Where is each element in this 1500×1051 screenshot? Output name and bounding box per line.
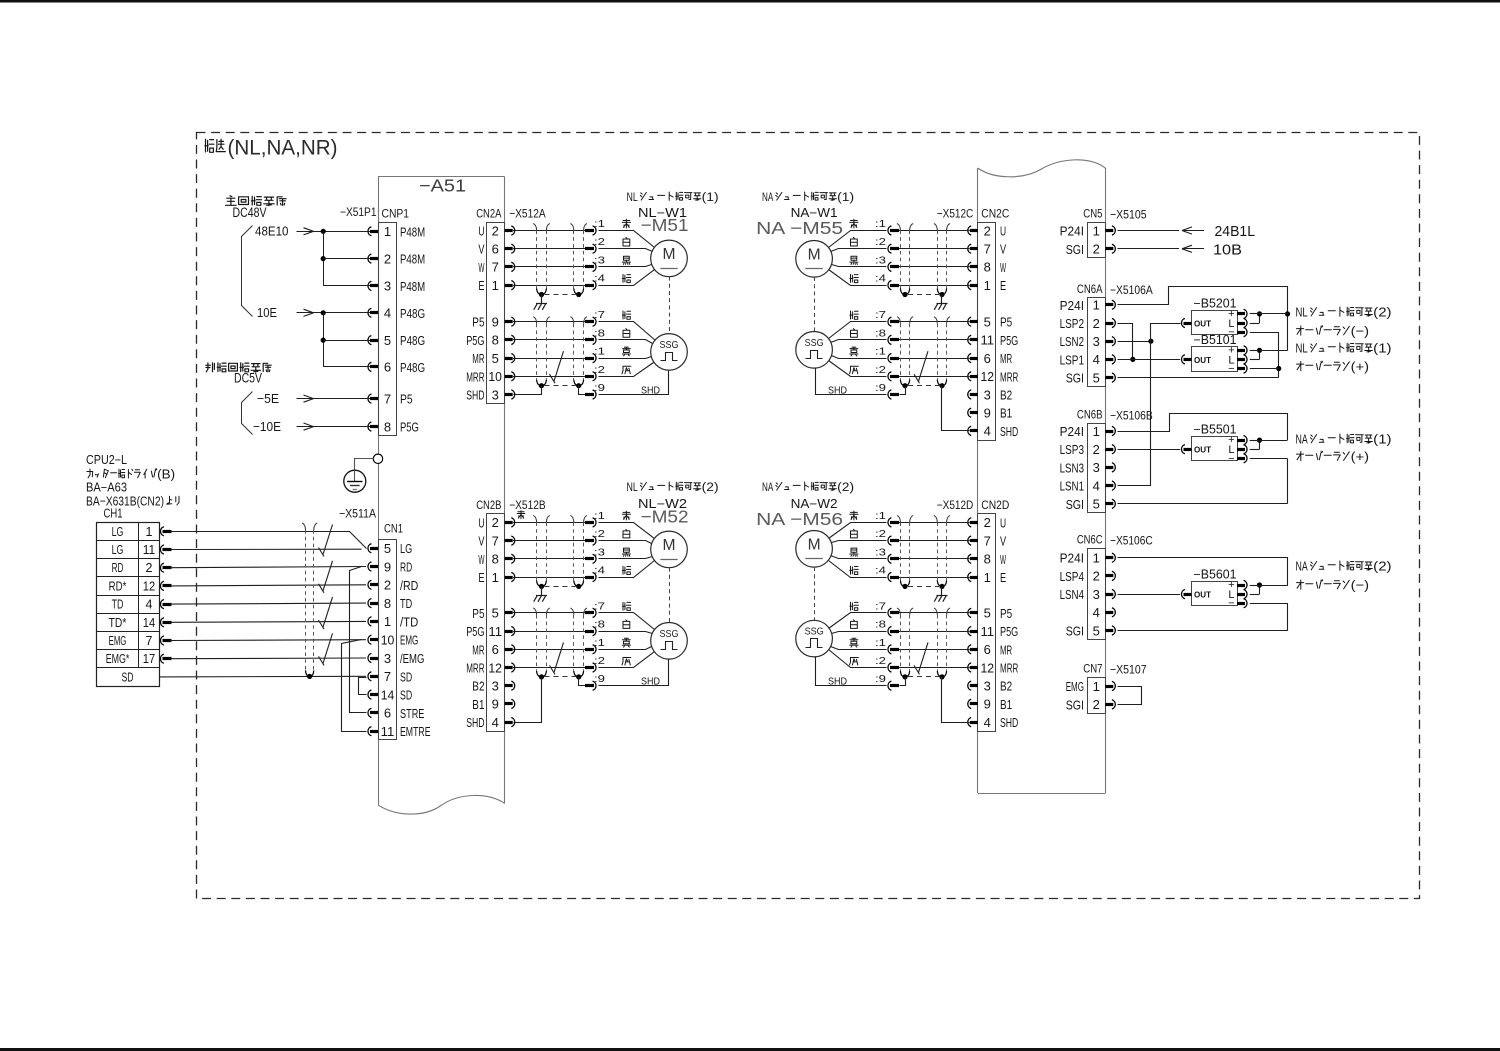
shielded cable pair 2 (encoder leads) bbox=[897, 317, 900, 324]
svg-text:11: 11 bbox=[981, 624, 995, 639]
svg-text:V: V bbox=[478, 242, 484, 257]
svg-text:1: 1 bbox=[1093, 679, 1100, 694]
shield junction dots + drain bbox=[539, 584, 544, 589]
svg-text:W: W bbox=[478, 552, 484, 567]
svg-text:3: 3 bbox=[1093, 587, 1100, 602]
wire color label 黄 bbox=[622, 347, 630, 356]
wire SHD shield drain bbox=[942, 386, 970, 431]
wire phase W (黒) bbox=[513, 266, 585, 268]
svg-text:11: 11 bbox=[381, 724, 395, 739]
svg-text::9: :9 bbox=[594, 673, 605, 685]
wire SHD shield drain bbox=[514, 677, 542, 723]
wire color label 緑 bbox=[622, 274, 631, 282]
svg-text:1: 1 bbox=[1093, 424, 1100, 439]
svg-text:CN2B: CN2B bbox=[476, 498, 501, 512]
svg-text:P24I: P24I bbox=[1060, 551, 1084, 566]
svg-text:SD: SD bbox=[122, 670, 134, 684]
connector CN7 box bbox=[1088, 678, 1106, 714]
wire to CNP1-3 bbox=[323, 285, 370, 287]
svg-text:MRR: MRR bbox=[1000, 661, 1018, 676]
svg-text:6: 6 bbox=[492, 642, 499, 657]
wire EMG-SGI loop bbox=[1118, 687, 1142, 705]
svg-text:P48G: P48G bbox=[400, 306, 425, 321]
wire color label 緑 bbox=[622, 566, 631, 574]
wire color label 白 bbox=[623, 529, 630, 538]
svg-text::1: :1 bbox=[875, 346, 886, 358]
wire SGI row bbox=[1118, 377, 1279, 379]
svg-text:P5G: P5G bbox=[400, 420, 419, 435]
svg-text:9: 9 bbox=[984, 697, 991, 712]
bracket DC48V bbox=[242, 226, 253, 317]
protective earth symbol PE bbox=[344, 470, 366, 492]
svg-text:P5G: P5G bbox=[466, 624, 484, 639]
motor NA −M55 circle bbox=[796, 240, 833, 277]
wire color label 白 bbox=[851, 620, 858, 629]
svg-text:P48M: P48M bbox=[400, 224, 425, 239]
svg-text:NA −M56: NA −M56 bbox=[756, 509, 843, 529]
svg-text:NL: NL bbox=[627, 480, 638, 494]
wire SGI row bbox=[1118, 630, 1288, 632]
label オーバーラン(-) bbox=[1297, 580, 1304, 589]
svg-text:LSN2: LSN2 bbox=[1060, 334, 1084, 349]
svg-text:SSG: SSG bbox=[805, 338, 824, 349]
svg-text:−X512A: −X512A bbox=[509, 207, 546, 221]
svg-text:48E10: 48E10 bbox=[255, 224, 289, 239]
dashed enclosure frame 搬送(NL,NA,NR) bbox=[197, 133, 1420, 899]
wire RD* to CN1-2 bbox=[170, 585, 366, 586]
wire phase U (赤) bbox=[513, 522, 585, 524]
svg-text:SGI: SGI bbox=[1066, 624, 1084, 639]
wire LSN2 junction bbox=[1118, 341, 1151, 343]
shielded cable pair 2 (encoder leads) bbox=[897, 608, 900, 615]
right servo amp unit box (break at top) bbox=[978, 160, 1106, 177]
wire EMG* to CN1-3 bbox=[170, 657, 366, 660]
svg-text:(2): (2) bbox=[837, 480, 854, 494]
wire EMG to CN1-10 bbox=[170, 639, 366, 642]
svg-text:M: M bbox=[808, 536, 821, 553]
svg-text:/RD: /RD bbox=[400, 578, 418, 593]
svg-text:SHD: SHD bbox=[1000, 715, 1018, 730]
svg-text::3: :3 bbox=[594, 546, 605, 558]
svg-text:9: 9 bbox=[492, 315, 499, 330]
motor −M52 circle bbox=[651, 531, 688, 568]
svg-text::2: :2 bbox=[875, 528, 886, 540]
bracket DC5V bbox=[242, 392, 253, 435]
svg-text:LG: LG bbox=[112, 525, 124, 539]
wire encoder P5G (白) bbox=[513, 339, 585, 341]
svg-text::1: :1 bbox=[594, 218, 605, 230]
svg-text:TD*: TD* bbox=[109, 616, 127, 630]
svg-text:RD: RD bbox=[400, 560, 412, 575]
svg-text::8: :8 bbox=[875, 619, 886, 631]
svg-text:(−): (−) bbox=[1351, 578, 1369, 593]
svg-text:−: − bbox=[1228, 363, 1234, 375]
svg-text:MRR: MRR bbox=[466, 661, 484, 676]
svg-text::8: :8 bbox=[875, 327, 886, 339]
connector CN1 -X511A box bbox=[379, 540, 397, 740]
svg-text::1: :1 bbox=[594, 510, 605, 522]
break mark EMG pair bbox=[323, 633, 333, 663]
wire color label 灰 bbox=[850, 366, 859, 374]
wire SD to CN1-7 bbox=[159, 675, 366, 678]
wire color label 橙 bbox=[622, 311, 631, 319]
shield junction dots + drain bbox=[939, 292, 944, 297]
svg-text:SD: SD bbox=[400, 669, 412, 684]
wire -10E to CNP1-8 bbox=[314, 426, 371, 428]
dashed link motor-encoder bbox=[669, 568, 671, 623]
svg-text:MRR: MRR bbox=[1000, 369, 1018, 384]
svg-text:−X511A: −X511A bbox=[339, 507, 376, 521]
svg-text:DC48V: DC48V bbox=[233, 205, 267, 220]
svg-text:W: W bbox=[1000, 552, 1006, 567]
wire junction to CNP1-2 bbox=[323, 231, 325, 286]
wire encoder P5 (橙) bbox=[513, 321, 585, 323]
wire color label 灰 bbox=[622, 366, 631, 374]
wire encoder MR (黄) bbox=[513, 649, 585, 651]
connector CN6A box bbox=[1088, 298, 1106, 387]
wire encoder P5G (白) bbox=[899, 631, 970, 633]
svg-text:7: 7 bbox=[492, 533, 499, 548]
wire color label 赤 bbox=[850, 219, 858, 228]
wire SHD to SSG bbox=[599, 660, 669, 686]
svg-text:8: 8 bbox=[492, 333, 499, 348]
wire color label 黒 bbox=[850, 256, 858, 264]
svg-text:SSG: SSG bbox=[660, 629, 679, 640]
svg-text:−X5107: −X5107 bbox=[1110, 663, 1147, 677]
dashed link motor-encoder bbox=[814, 567, 816, 620]
power label 制御回路電源 bbox=[206, 363, 215, 372]
svg-text::9: :9 bbox=[875, 673, 886, 685]
svg-text:6: 6 bbox=[984, 642, 991, 657]
shielded cable pair 2 (motor leads) bbox=[897, 224, 900, 231]
−B5601 L tie wire bbox=[1250, 585, 1260, 587]
svg-text:RD*: RD* bbox=[109, 579, 127, 593]
svg-text:−A51: −A51 bbox=[419, 176, 466, 196]
svg-text:5: 5 bbox=[384, 541, 391, 556]
wire SHD shield drain bbox=[942, 677, 970, 723]
svg-text:W: W bbox=[1000, 260, 1006, 275]
svg-text:STRE: STRE bbox=[400, 706, 425, 721]
shield pair on CPU cable bbox=[302, 523, 305, 530]
svg-text:(NL,NA,NR): (NL,NA,NR) bbox=[228, 137, 338, 160]
wire phase E (緑) bbox=[513, 285, 585, 287]
svg-text:8: 8 bbox=[984, 260, 991, 275]
shielded cable pair (encoder leads) bbox=[533, 608, 536, 615]
svg-text:8: 8 bbox=[984, 552, 991, 567]
svg-text:12: 12 bbox=[143, 579, 155, 593]
svg-text:14: 14 bbox=[143, 616, 155, 630]
svg-text:SD: SD bbox=[400, 688, 412, 703]
svg-text:12: 12 bbox=[488, 660, 502, 675]
svg-text:(−): (−) bbox=[1351, 324, 1369, 339]
svg-text::2: :2 bbox=[875, 236, 886, 248]
svg-text:EMG*: EMG* bbox=[106, 652, 130, 666]
svg-text:LG: LG bbox=[112, 543, 124, 557]
svg-text:MRR: MRR bbox=[466, 369, 484, 384]
svg-text:3: 3 bbox=[984, 679, 991, 694]
wire encoder MRR (灰) bbox=[513, 667, 585, 669]
svg-text:3: 3 bbox=[384, 279, 391, 294]
wire SHD to SSG bbox=[599, 371, 669, 395]
svg-text:9: 9 bbox=[984, 406, 991, 421]
svg-text:CN6C: CN6C bbox=[1077, 532, 1103, 546]
wire P24I loop to B5601 + bbox=[1118, 558, 1288, 586]
wire color label 赤 bbox=[850, 511, 858, 520]
svg-text:−M52: −M52 bbox=[641, 506, 689, 526]
wire color label 緑 bbox=[850, 566, 859, 574]
label カッター軸ドライバ(B) bbox=[87, 469, 93, 478]
CN2B connector box bbox=[487, 514, 505, 732]
svg-text:NA: NA bbox=[762, 190, 774, 204]
svg-text:U: U bbox=[1000, 224, 1006, 239]
wire B5201 OUT down to CN6B LSN1 bbox=[1118, 324, 1181, 486]
svg-text:P24I: P24I bbox=[1060, 224, 1084, 239]
svg-text:U: U bbox=[478, 224, 484, 239]
svg-text:NL: NL bbox=[627, 190, 638, 204]
sensor −B5501 box bbox=[1192, 437, 1238, 461]
svg-text:2: 2 bbox=[1093, 569, 1100, 584]
shielded cable pair (motor leads) bbox=[533, 515, 536, 522]
wire color label 橙 bbox=[850, 311, 859, 319]
svg-text:P5: P5 bbox=[472, 606, 484, 621]
svg-text:LSN4: LSN4 bbox=[1060, 587, 1084, 602]
svg-text:2: 2 bbox=[492, 515, 499, 530]
svg-text::4: :4 bbox=[594, 565, 605, 577]
svg-text:CN1: CN1 bbox=[384, 522, 403, 536]
svg-text:−X5106C: −X5106C bbox=[1110, 533, 1153, 547]
svg-text:(1): (1) bbox=[702, 190, 719, 204]
chassis ground bbox=[941, 295, 943, 304]
svg-text:MR: MR bbox=[472, 642, 484, 657]
wire phase V (白) bbox=[899, 540, 970, 542]
−B5501 L tie wire bbox=[1250, 440, 1260, 442]
svg-text:1: 1 bbox=[146, 525, 153, 539]
svg-text::3: :3 bbox=[875, 546, 886, 558]
connector CN6B box bbox=[1088, 424, 1106, 513]
wire color label 黄 bbox=[622, 638, 630, 647]
shielded cable pair (motor leads) bbox=[533, 224, 536, 231]
svg-text:5: 5 bbox=[492, 606, 499, 621]
wire LSP2 to LSP1 junction bbox=[1118, 324, 1133, 360]
svg-text:P24I: P24I bbox=[1060, 298, 1084, 313]
svg-text:RD: RD bbox=[112, 561, 124, 575]
svg-text::7: :7 bbox=[875, 309, 886, 321]
svg-text::1: :1 bbox=[875, 510, 886, 522]
svg-text:OUT: OUT bbox=[1194, 445, 1212, 455]
svg-text:4: 4 bbox=[984, 424, 991, 439]
svg-text:5: 5 bbox=[492, 351, 499, 366]
svg-text:−M51: −M51 bbox=[641, 215, 689, 235]
connector CN5 box bbox=[1088, 223, 1106, 258]
svg-text:4: 4 bbox=[146, 598, 153, 612]
svg-text:OUT: OUT bbox=[1194, 355, 1212, 365]
svg-text:1: 1 bbox=[384, 614, 391, 629]
svg-text:OUT: OUT bbox=[1194, 319, 1212, 329]
svg-text:E: E bbox=[478, 278, 484, 293]
shielded cable pair 2 (motor leads) bbox=[570, 224, 573, 231]
svg-text:LSP2: LSP2 bbox=[1060, 316, 1084, 331]
CN2D connector box bbox=[978, 514, 996, 732]
svg-text:BA−A63: BA−A63 bbox=[86, 481, 127, 495]
wire encoder P5 (橙) bbox=[899, 612, 970, 614]
svg-text:P48G: P48G bbox=[400, 360, 425, 375]
svg-text:CN2A: CN2A bbox=[476, 207, 501, 221]
svg-text:LSP3: LSP3 bbox=[1060, 442, 1084, 457]
svg-text:8: 8 bbox=[492, 552, 499, 567]
svg-text:1: 1 bbox=[1093, 223, 1100, 238]
svg-text:LSN1: LSN1 bbox=[1060, 479, 1084, 494]
svg-text:8: 8 bbox=[384, 596, 391, 611]
CN2A connector box bbox=[487, 223, 505, 404]
label オーバーラン(-) bbox=[1297, 326, 1304, 335]
CPU signal table bbox=[97, 523, 160, 687]
svg-text:SHD: SHD bbox=[466, 715, 484, 730]
encoder shield dots bbox=[539, 383, 544, 388]
svg-text:4: 4 bbox=[492, 715, 499, 730]
svg-text::2: :2 bbox=[594, 364, 605, 376]
wire color label 黄 bbox=[850, 638, 858, 647]
wire SHD to SSG bbox=[816, 657, 887, 686]
wire phase E (緑) bbox=[899, 285, 970, 287]
svg-text:NL: NL bbox=[1296, 305, 1308, 320]
svg-text:EMG: EMG bbox=[109, 634, 127, 648]
svg-text:2: 2 bbox=[1093, 442, 1100, 457]
encoder SSG circle bbox=[651, 623, 688, 660]
svg-text:(1): (1) bbox=[837, 190, 854, 204]
svg-text:9: 9 bbox=[384, 559, 391, 574]
svg-text:2: 2 bbox=[492, 223, 499, 238]
svg-text:6: 6 bbox=[492, 242, 499, 257]
svg-text:CH1: CH1 bbox=[104, 507, 123, 521]
wire color label 白 bbox=[851, 237, 858, 246]
svg-text:P5: P5 bbox=[1000, 606, 1012, 621]
wire B5201 + row bbox=[1250, 313, 1288, 315]
svg-text:−X512D: −X512D bbox=[937, 498, 974, 512]
svg-text:SGI: SGI bbox=[1066, 371, 1084, 386]
shielded cable pair 2 (motor leads) bbox=[570, 515, 573, 522]
wire B5601 + row bbox=[1250, 585, 1288, 587]
svg-text:2: 2 bbox=[1093, 697, 1100, 712]
svg-text:−X5106B: −X5106B bbox=[1110, 409, 1153, 423]
break mark encoder cable bbox=[919, 351, 929, 381]
svg-text:24B1L: 24B1L bbox=[1215, 223, 1256, 240]
encoder SSG circle bbox=[796, 332, 833, 369]
shielded cable pair 2 (motor leads) bbox=[897, 515, 900, 522]
svg-text:OUT: OUT bbox=[1194, 590, 1212, 600]
svg-text:12: 12 bbox=[981, 660, 995, 675]
shield drain dot bbox=[307, 674, 312, 679]
svg-text:5: 5 bbox=[1093, 370, 1100, 385]
wire B5201 - to B5101 - to SGI bbox=[1250, 332, 1279, 334]
−B5101 L tie wire bbox=[1250, 350, 1260, 352]
wire B5601 - to SGI bbox=[1250, 603, 1288, 605]
svg-text:B2: B2 bbox=[472, 679, 484, 694]
wire P24I loop to sensors + bbox=[1118, 287, 1288, 351]
wire LSN4 to B5601 OUT bbox=[1118, 594, 1181, 596]
svg-text:NL: NL bbox=[1296, 341, 1308, 356]
wire B5501 - to SGI bbox=[1250, 458, 1287, 460]
svg-text:1: 1 bbox=[1093, 551, 1100, 566]
wire phase U (赤) bbox=[513, 230, 585, 232]
wire phase W (黒) bbox=[899, 558, 970, 560]
encoder shield dots bbox=[939, 383, 944, 388]
svg-text:SGI: SGI bbox=[1066, 697, 1084, 712]
svg-text:1: 1 bbox=[492, 570, 499, 585]
wire to protective earth bbox=[355, 459, 374, 471]
svg-text::2: :2 bbox=[594, 236, 605, 248]
bottom border bar bbox=[0, 1048, 1500, 1051]
svg-text:BA−X631B(CN2): BA−X631B(CN2) bbox=[86, 494, 164, 509]
wire encoder MR (黄) bbox=[899, 649, 970, 651]
svg-text:3: 3 bbox=[1093, 334, 1100, 349]
svg-text::9: :9 bbox=[875, 382, 886, 394]
svg-text::1: :1 bbox=[594, 637, 605, 649]
svg-text::7: :7 bbox=[594, 600, 605, 612]
svg-text:U: U bbox=[1000, 515, 1006, 530]
svg-text::4: :4 bbox=[875, 273, 886, 285]
svg-text:−10E: −10E bbox=[253, 419, 281, 434]
svg-text:CNP1: CNP1 bbox=[382, 206, 410, 220]
svg-text:3: 3 bbox=[384, 651, 391, 666]
svg-text:TD: TD bbox=[112, 598, 124, 612]
svg-text:SGI: SGI bbox=[1066, 242, 1084, 257]
wire encoder MR (黄) bbox=[899, 358, 970, 360]
wire LSP3 to B5501 OUT bbox=[1118, 449, 1181, 451]
svg-text:4: 4 bbox=[384, 306, 391, 321]
wire B5101 + row bbox=[1250, 350, 1288, 352]
encoder shield dots bbox=[939, 674, 944, 679]
dashed link motor-encoder bbox=[814, 277, 816, 332]
wire phase E (緑) bbox=[513, 577, 585, 579]
svg-text:MR: MR bbox=[472, 351, 484, 366]
connector CNP1 -X51P1 box bbox=[379, 223, 397, 436]
svg-text:P48G: P48G bbox=[400, 333, 425, 348]
shielded cable pair 2 (encoder leads) bbox=[570, 608, 573, 615]
shielded cable pair (motor leads) bbox=[934, 515, 937, 522]
wire color label 白 bbox=[623, 237, 630, 246]
svg-text:2: 2 bbox=[1093, 316, 1100, 331]
wire phase E (緑) bbox=[899, 577, 970, 579]
wire color label 黒 bbox=[850, 548, 858, 556]
svg-text:5: 5 bbox=[984, 606, 991, 621]
shield junction dots + drain bbox=[939, 584, 944, 589]
shield junction dots + drain bbox=[539, 292, 544, 297]
wire encoder P5G (白) bbox=[513, 631, 585, 633]
svg-text:B2: B2 bbox=[1000, 679, 1012, 694]
svg-text:4: 4 bbox=[1093, 478, 1100, 493]
svg-text:CN6A: CN6A bbox=[1077, 282, 1103, 296]
svg-text:1: 1 bbox=[492, 278, 499, 293]
wire TD* to CN1-1 bbox=[170, 620, 366, 623]
title 搬送(NL,NA,NR) bbox=[205, 139, 214, 152]
svg-text:17: 17 bbox=[143, 652, 155, 666]
wire color label 黒 bbox=[622, 256, 630, 264]
svg-text:P5G: P5G bbox=[1000, 624, 1018, 639]
wire phase U (赤) bbox=[899, 522, 970, 524]
svg-text::1: :1 bbox=[875, 637, 886, 649]
shielded cable pair 2 (encoder leads) bbox=[570, 317, 573, 324]
break mark RD pair bbox=[323, 561, 333, 591]
svg-text::4: :4 bbox=[875, 565, 886, 577]
svg-text::7: :7 bbox=[594, 309, 605, 321]
terminal circle on A51 edge bbox=[373, 454, 382, 463]
wire RD to CN1-9 bbox=[170, 567, 366, 568]
svg-text:1: 1 bbox=[984, 570, 991, 585]
svg-text:2: 2 bbox=[384, 251, 391, 266]
wire color label 白 bbox=[851, 329, 858, 338]
break mark LG pair bbox=[323, 525, 333, 555]
svg-text:CN7: CN7 bbox=[1083, 662, 1102, 676]
